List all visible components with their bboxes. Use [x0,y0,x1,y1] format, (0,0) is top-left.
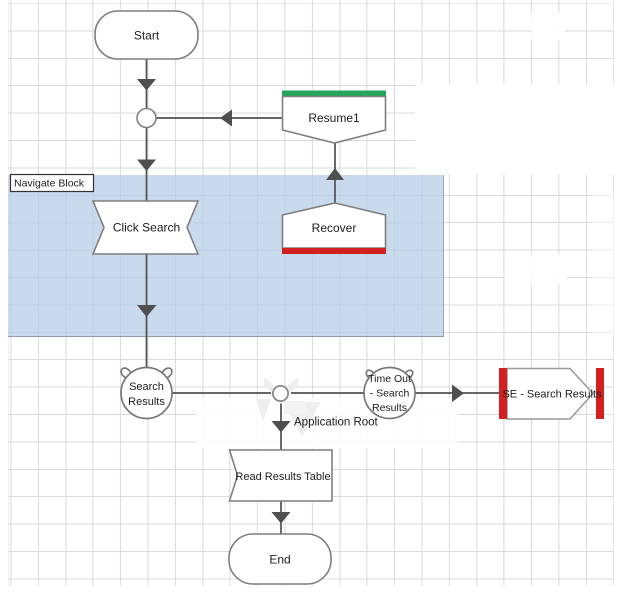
svg-text:Read Results Table: Read Results Table [235,471,330,483]
svg-text:Start: Start [134,29,160,43]
svg-text:Resume1: Resume1 [308,111,360,125]
svg-text:SE - Search Results: SE - Search Results [502,389,602,401]
svg-text:End: End [269,553,290,567]
svg-text:Results: Results [128,396,165,408]
svg-text:- Search: - Search [370,388,410,400]
svg-text:Results: Results [372,402,407,414]
svg-text:Navigate Block: Navigate Block [14,178,85,190]
svg-text:Click Search: Click Search [113,221,180,235]
svg-text:Search: Search [129,381,164,393]
svg-text:Time Out: Time Out [368,373,411,385]
svg-text:Recover: Recover [312,221,357,235]
svg-text:Application Root: Application Root [294,417,379,429]
